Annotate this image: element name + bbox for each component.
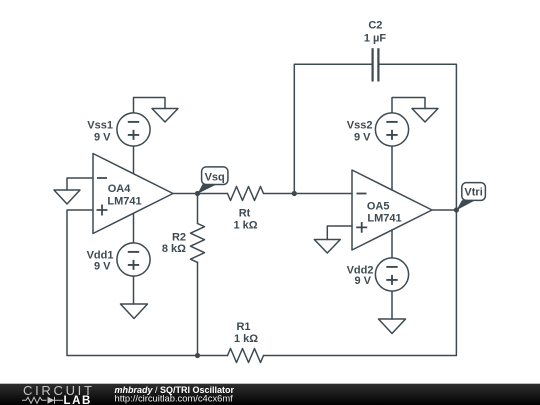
svg-text:R1: R1: [236, 321, 250, 333]
svg-text:1 kΩ: 1 kΩ: [233, 220, 257, 232]
svg-text:http://circuitlab.com/c4cx6mf: http://circuitlab.com/c4cx6mf: [115, 392, 234, 403]
svg-text:OA5: OA5: [367, 200, 390, 212]
svg-text:Vtri: Vtri: [464, 187, 482, 199]
svg-text:9 V: 9 V: [94, 132, 111, 144]
svg-text:9 V: 9 V: [94, 261, 111, 273]
svg-text:R2: R2: [172, 232, 186, 244]
svg-text:9 V: 9 V: [354, 275, 371, 287]
svg-text:Vss2: Vss2: [347, 120, 373, 132]
svg-text:1 kΩ: 1 kΩ: [234, 333, 258, 345]
svg-text:1 µF: 1 µF: [364, 33, 387, 45]
svg-text:LAB: LAB: [64, 395, 92, 405]
svg-text:LM741: LM741: [107, 195, 141, 207]
svg-text:9 V: 9 V: [354, 132, 371, 144]
svg-text:8 kΩ: 8 kΩ: [162, 243, 186, 255]
svg-text:LM741: LM741: [367, 212, 401, 224]
svg-text:Vss1: Vss1: [87, 120, 113, 132]
svg-text:Rt: Rt: [239, 208, 251, 220]
svg-text:OA4: OA4: [108, 183, 132, 195]
svg-text:C2: C2: [368, 20, 382, 32]
svg-text:Vsq: Vsq: [205, 172, 225, 184]
